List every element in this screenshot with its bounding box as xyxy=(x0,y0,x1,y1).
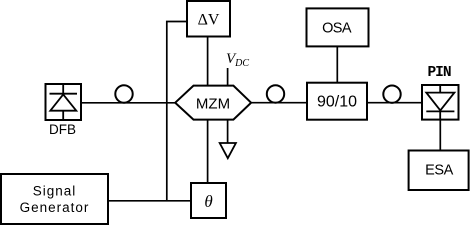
svg-text:ΔV: ΔV xyxy=(198,12,220,29)
polarization controller loop 2 xyxy=(267,85,284,102)
photodiode PIN xyxy=(422,85,459,120)
laser DFB xyxy=(46,84,82,120)
svg-text:MZM: MZM xyxy=(196,95,230,112)
svg-text:DFB: DFB xyxy=(49,122,76,137)
svg-text:Generator: Generator xyxy=(20,200,90,215)
wire: MZM bottom to theta xyxy=(207,120,209,183)
signal generator xyxy=(1,174,108,224)
analyzer OSA xyxy=(307,8,369,46)
wire: MZM output to 90/10 coupler xyxy=(251,102,307,104)
polarization controller loop 3 xyxy=(383,86,400,103)
modulator MZM xyxy=(175,86,251,120)
svg-text:90/10: 90/10 xyxy=(317,94,357,111)
wire: signal generator line vertical riser to dV xyxy=(167,22,187,201)
wire: MZM bottom to ground xyxy=(227,120,229,143)
polarization controller loop 1 xyxy=(115,85,132,102)
wire: signal generator to theta xyxy=(108,200,191,202)
svg-text:Signal: Signal xyxy=(33,184,77,199)
wire: coupler to PIN xyxy=(367,102,422,104)
wire: PIN to ESA xyxy=(439,120,441,151)
phase shifter theta box xyxy=(191,183,226,218)
svg-text:PIN: PIN xyxy=(427,65,450,81)
wire: VDC bias to MZM top xyxy=(227,68,229,86)
wire: coupler to OSA xyxy=(336,46,338,82)
ground xyxy=(220,143,236,158)
amplifier dV box xyxy=(187,1,230,37)
coupler 90/10 xyxy=(307,83,367,120)
svg-text:OSA: OSA xyxy=(322,21,352,37)
svg-text:θ: θ xyxy=(204,192,212,211)
wire: dV to MZM top electrode xyxy=(207,37,209,86)
wire: DFB output to MZM input xyxy=(81,102,176,104)
svg-text:ESA: ESA xyxy=(425,163,454,179)
analyzer ESA xyxy=(409,151,469,191)
